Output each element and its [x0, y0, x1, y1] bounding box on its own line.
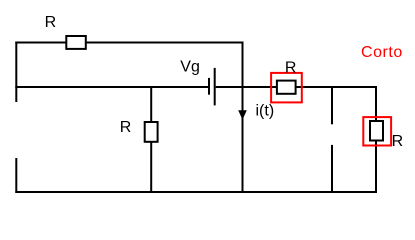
wire: open branch (middle-right), top segment	[331, 86, 333, 124]
resistor R (top)	[66, 36, 86, 49]
resistor R (left branch, vertical)	[145, 122, 158, 142]
resistor R (middle, horizontal, highlighted)	[277, 81, 296, 94]
wire: open branch (middle-right), bottom segment	[331, 145, 333, 193]
svg-text:R: R	[45, 14, 57, 31]
voltage source Vg (battery bars)	[209, 68, 215, 106]
wire: right vertical branch	[375, 86, 377, 193]
wire: left resistor branch vertical	[150, 86, 152, 193]
resistor R (right branch, vertical, highlighted)	[370, 121, 383, 141]
svg-text:R: R	[392, 133, 404, 150]
wire: top horizontal net	[15, 42, 242, 44]
svg-text:Corto: Corto	[361, 44, 403, 61]
svg-text:i(t): i(t)	[256, 103, 275, 120]
wire: bottom horizontal net	[15, 191, 377, 193]
wire: left vertical open branch, top segment	[15, 42, 17, 103]
wire: middle horizontal, left of Vg	[15, 86, 208, 88]
svg-text:R: R	[120, 119, 132, 136]
highlight box around middle resistor	[271, 73, 302, 103]
wire: middle horizontal, right of Vg	[216, 86, 377, 88]
svg-text:R: R	[285, 59, 297, 76]
highlight box around right resistor	[363, 117, 391, 145]
wire: i(t) vertical branch	[242, 42, 244, 194]
current arrow i(t)	[238, 110, 247, 120]
wire: left vertical open branch, bottom segment	[15, 158, 17, 193]
svg-text:Vg: Vg	[180, 58, 200, 75]
